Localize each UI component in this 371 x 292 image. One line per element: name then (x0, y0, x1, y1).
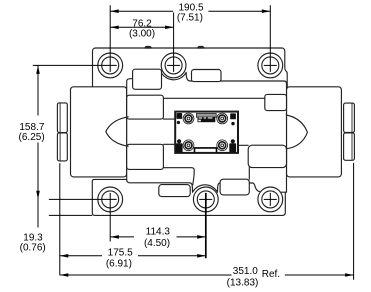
arrow 76.2 right (165, 26, 174, 30)
svg-text:(13.83): (13.83) (227, 278, 259, 289)
extension line left outer (59, 163, 61, 275)
body boss top-left (133, 69, 162, 89)
interface pad outline (175, 112, 238, 153)
arrow 76.2 left (110, 26, 119, 30)
centerline vertical bottom-middle hole (205, 193, 207, 258)
body boss top-middle (192, 70, 222, 82)
arrow 175.5 left (60, 254, 69, 258)
pad dot below top-right mark (231, 122, 234, 125)
svg-text:351.0: 351.0 (233, 266, 258, 277)
flange hole top-left (98, 53, 123, 78)
spool bore line lower-right (238, 144, 248, 146)
arrow 175.5 right (197, 254, 206, 258)
arrow 114.3 left (110, 235, 119, 239)
svg-text:(0.76): (0.76) (20, 242, 46, 253)
svg-text:114.3: 114.3 (146, 227, 171, 238)
flange hole bottom-left (98, 187, 123, 212)
body face line lower (163, 168, 194, 185)
svg-text:175.5: 175.5 (108, 247, 133, 258)
dimension line 190.5 (110, 10, 270, 12)
arrow 190.5 left (110, 9, 119, 13)
pad port B (183, 140, 194, 151)
svg-text:(7.51): (7.51) (177, 13, 203, 24)
pad port A (217, 113, 228, 124)
pad corner bolt mark top-right (230, 113, 236, 119)
flange hole bottom-right (258, 187, 283, 212)
dimension line 158.7 (37, 65, 39, 227)
bottom mounting flange (92, 179, 285, 215)
arrow 351.0 left (60, 273, 69, 277)
extension line flange bottom edge (49, 214, 92, 216)
svg-text:(6.91): (6.91) (106, 258, 132, 269)
pad corner mark bottom-left (176, 139, 183, 152)
pad corner bolt mark top-left (177, 113, 183, 119)
flange hole bottom-middle (193, 187, 218, 212)
body boss bottom-middle (220, 179, 249, 195)
pad dot below top-left mark (177, 121, 180, 124)
body box upper-right (265, 94, 287, 110)
body boss bottom-left (159, 185, 190, 197)
centerline horizontal bottom-middle hole (199, 198, 212, 200)
centerline horizontal top-left hole (33, 64, 117, 66)
flange hole top-right (258, 53, 283, 78)
body box upper-left (127, 95, 164, 119)
arrow 351.0 right (345, 273, 354, 277)
body box lower-right (248, 145, 286, 167)
top mounting flange (93, 48, 288, 88)
centerline horizontal bottom-right hole (264, 198, 277, 200)
spool bore line upper-left (163, 118, 175, 120)
centerline vertical bottom-right hole (269, 193, 271, 206)
flange hole top-middle (161, 53, 186, 78)
right solenoid coil (287, 87, 342, 177)
left armature bullet (106, 117, 128, 146)
centerline horizontal top-right hole (264, 64, 277, 66)
svg-text:(6.25): (6.25) (19, 132, 45, 143)
arrow 190.5 right (262, 9, 271, 13)
body box lower-left (127, 144, 164, 169)
centerline vertical bottom-left hole (109, 193, 111, 242)
centerline vertical top-middle hole (173, 13, 175, 72)
left solenoid coil (71, 87, 127, 177)
text backgrounds (15, 116, 48, 143)
svg-text:Ref.: Ref. (262, 269, 280, 280)
pad port T (217, 140, 228, 151)
spool bore line lower-left (163, 143, 175, 145)
centerline horizontal top-middle hole (167, 64, 180, 66)
right end cap upper (344, 103, 355, 132)
dimension line 76.2 (110, 26, 173, 28)
arrow 158.7 down (36, 191, 40, 200)
right end cap lower (344, 133, 355, 160)
dimension line 114.3 (110, 236, 205, 238)
pad nameplate (196, 114, 216, 123)
pad bottom notch (195, 148, 217, 153)
left end cap lower (57, 133, 67, 161)
body face line upper (163, 97, 264, 99)
left end cap rib (59, 104, 61, 161)
arrow 158.7 up (36, 65, 40, 74)
flange top edge bump 2 (198, 46, 205, 48)
pad corner mark bottom-right (229, 139, 236, 152)
extension line right outer (353, 163, 355, 280)
pad port P (183, 113, 194, 124)
left end cap upper (57, 103, 67, 133)
right end cap rib (351, 104, 353, 160)
dimension line 175.5 (60, 255, 206, 257)
flange top edge bump 1 (145, 46, 152, 48)
right armature bullet (286, 115, 307, 149)
centerline horizontal bottom-left hole (49, 198, 117, 200)
arrow 114.3 right (197, 235, 206, 239)
centerline vertical top-right hole (269, 5, 271, 72)
svg-text:(3.00): (3.00) (129, 28, 155, 39)
valve center body outline (127, 72, 287, 192)
dimension line 351.0 (60, 274, 354, 276)
svg-text:(4.50): (4.50) (144, 238, 170, 249)
centerline vertical top-left hole (109, 5, 111, 72)
